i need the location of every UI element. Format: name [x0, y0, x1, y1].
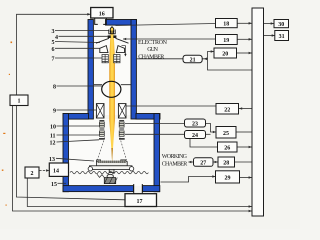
svg-text:26: 26	[224, 146, 230, 152]
svg-text:25: 25	[223, 131, 229, 137]
svg-text:ELECTRON: ELECTRON	[138, 40, 168, 46]
svg-text:6: 6	[52, 47, 55, 53]
svg-text:7: 7	[52, 57, 55, 63]
svg-text:CHAMBER: CHAMBER	[162, 162, 188, 168]
svg-text:16: 16	[99, 12, 105, 18]
svg-text:22: 22	[224, 107, 230, 113]
svg-text:21: 21	[190, 57, 196, 63]
svg-text:23: 23	[192, 122, 198, 128]
svg-text:13: 13	[49, 157, 55, 163]
svg-text:8: 8	[53, 85, 56, 91]
svg-text:11: 11	[50, 134, 56, 140]
svg-text:1: 1	[18, 99, 21, 105]
svg-text:15: 15	[51, 182, 57, 188]
svg-text:5: 5	[52, 40, 55, 46]
svg-text:27: 27	[200, 161, 206, 167]
svg-text:10: 10	[50, 125, 56, 131]
svg-text:CHAMBER: CHAMBER	[138, 55, 164, 61]
svg-text:30: 30	[278, 22, 284, 28]
svg-text:31: 31	[279, 34, 285, 40]
svg-text:14: 14	[53, 169, 59, 175]
svg-text:20: 20	[222, 52, 228, 58]
svg-text:18: 18	[223, 22, 229, 28]
svg-text:9: 9	[53, 109, 56, 115]
svg-text:GUN: GUN	[147, 47, 158, 53]
svg-text:19: 19	[223, 38, 229, 44]
svg-text:29: 29	[225, 176, 231, 182]
svg-text:24: 24	[192, 133, 198, 139]
svg-text:28: 28	[223, 161, 229, 167]
svg-text:WORKING: WORKING	[162, 154, 188, 160]
svg-text:4: 4	[55, 35, 58, 41]
svg-text:12: 12	[50, 141, 56, 147]
svg-text:2: 2	[31, 171, 34, 177]
svg-text:17: 17	[137, 199, 143, 205]
